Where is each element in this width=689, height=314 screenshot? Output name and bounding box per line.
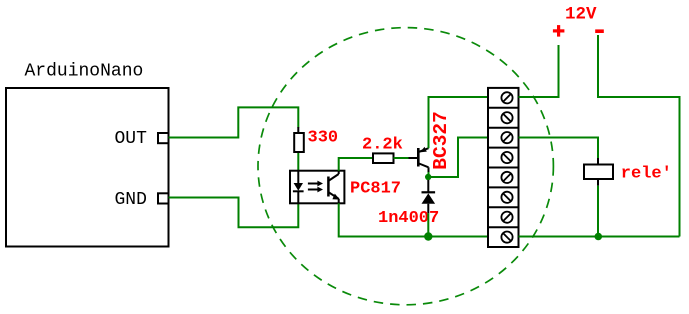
dashed enclosure ellipse <box>258 28 553 305</box>
wire opto collector to 2.2k <box>339 158 373 171</box>
svg-text:330: 330 <box>308 129 339 148</box>
wire collector to node <box>428 172 430 177</box>
wire OUT to resistor R330 <box>169 107 299 137</box>
svg-text:ArduinoNano: ArduinoNano <box>25 62 144 82</box>
svg-text:PC817: PC817 <box>350 180 401 199</box>
screw 7 <box>501 212 512 223</box>
svg-text:1n4007: 1n4007 <box>378 209 439 228</box>
phototransistor inside opto <box>327 177 330 197</box>
screw 6 <box>501 192 512 203</box>
svg-text:12V: 12V <box>565 5 597 25</box>
symbol + <box>553 25 565 36</box>
resistor 330 <box>297 127 299 133</box>
wire node to terminal 3 <box>428 138 488 178</box>
wire emitter to +12V rail <box>429 97 489 148</box>
screw 8 <box>501 232 512 243</box>
optocoupler U1 PC817 <box>290 171 344 204</box>
terminal block J1 <box>488 88 519 247</box>
diode D1 1n4007 <box>422 180 436 213</box>
screw 3 <box>501 132 512 143</box>
svg-text:2.2k: 2.2k <box>362 136 403 155</box>
pin GND square <box>158 193 169 203</box>
relay K1 <box>584 165 613 180</box>
wire resistor R330 to optocoupler LED anode <box>297 152 299 171</box>
pin OUT square <box>158 133 169 143</box>
wire diode to bottom rail <box>427 213 429 236</box>
wire GND to optocoupler LED cathode <box>169 198 299 228</box>
screw 2 <box>501 112 512 123</box>
screw 5 <box>501 172 512 183</box>
svg-text:BC327: BC327 <box>430 111 452 170</box>
symbol - <box>595 29 604 33</box>
node diode-rail junction <box>424 232 432 240</box>
svg-text:OUT: OUT <box>115 129 148 149</box>
screw 4 <box>501 152 512 163</box>
wire relay to bottom rail <box>597 186 599 237</box>
svg-text:rele': rele' <box>621 165 672 184</box>
wire -12V down and around <box>598 35 680 237</box>
svg-text:GND: GND <box>115 190 147 210</box>
wire bottom rail (opto emitter to terminal 8) <box>339 203 488 236</box>
wire terminal 1 to +12V <box>519 45 559 97</box>
wire bottom rail right <box>519 236 680 238</box>
resistor 2.2k <box>373 153 394 163</box>
screw 1 <box>501 92 512 103</box>
ArduinoNano box <box>6 88 169 247</box>
transistor Q1 BC327 (PNP) <box>418 147 428 173</box>
LED inside opto <box>297 171 299 183</box>
light arrows <box>308 183 318 185</box>
node relay-rail junction <box>595 233 603 241</box>
wire 2.2k to base <box>394 157 409 159</box>
wire terminal 3 to relay <box>519 138 599 159</box>
node collector junction <box>425 174 431 180</box>
